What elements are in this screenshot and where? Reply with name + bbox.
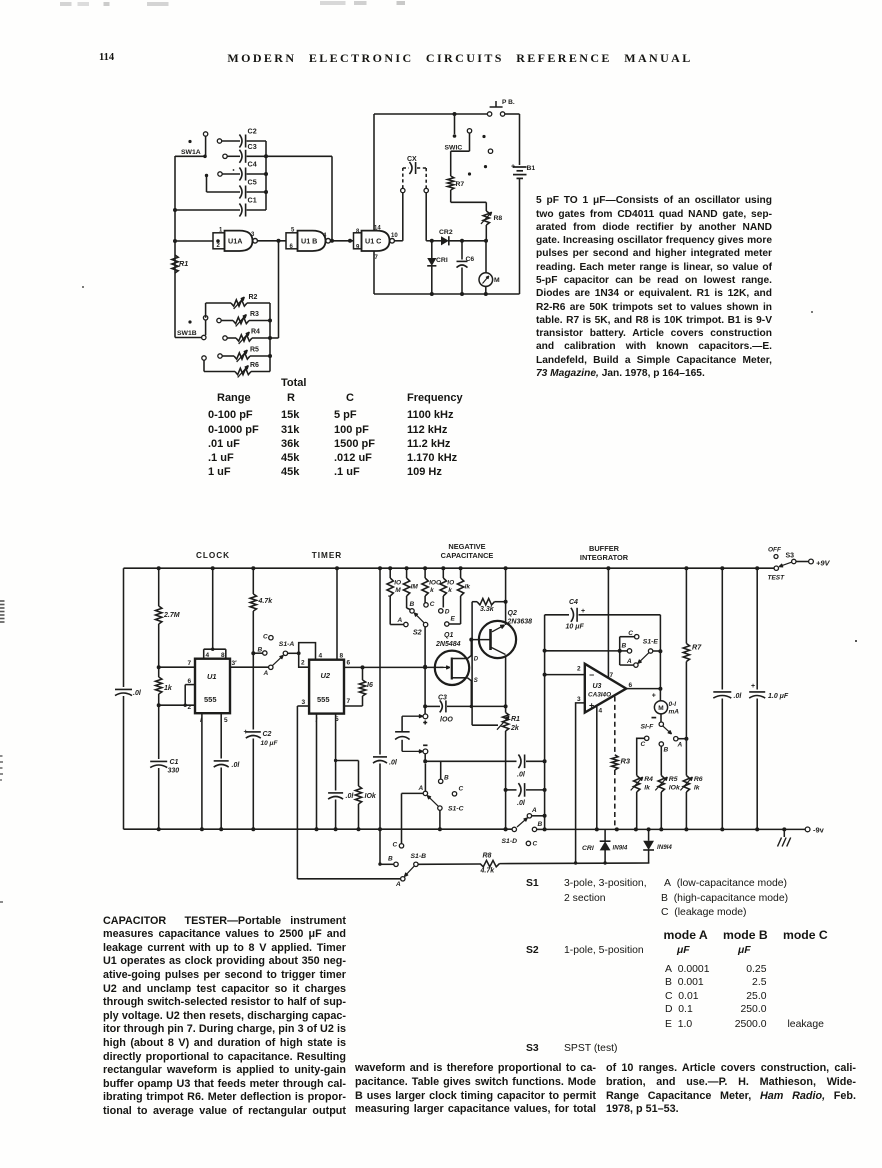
svg-text:2: 2 bbox=[577, 666, 581, 673]
svg-text:2: 2 bbox=[188, 704, 192, 711]
svg-text:555: 555 bbox=[204, 695, 217, 704]
svg-text:C: C bbox=[628, 630, 633, 637]
svg-text:INTEGRATOR: INTEGRATOR bbox=[580, 553, 629, 562]
svg-text:4: 4 bbox=[323, 233, 327, 239]
svg-text:lN9l4: lN9l4 bbox=[613, 845, 628, 852]
svg-text:CR2: CR2 bbox=[439, 229, 453, 236]
svg-text:555: 555 bbox=[317, 695, 330, 704]
svg-text:7: 7 bbox=[188, 660, 192, 667]
svg-text:CX: CX bbox=[407, 156, 417, 163]
svg-text:S1-A: S1-A bbox=[279, 641, 295, 648]
svg-text:R4: R4 bbox=[644, 776, 653, 783]
svg-text:4: 4 bbox=[319, 653, 323, 660]
svg-text:M: M bbox=[658, 705, 663, 712]
svg-text:B: B bbox=[538, 821, 543, 828]
svg-text:C: C bbox=[533, 841, 538, 848]
svg-text:TEST: TEST bbox=[768, 575, 786, 582]
svg-text:S1-D: S1-D bbox=[502, 838, 518, 845]
svg-text:2N3638: 2N3638 bbox=[507, 619, 533, 626]
svg-text:k: k bbox=[448, 587, 452, 594]
svg-text:D: D bbox=[474, 657, 479, 663]
svg-text:CRl: CRl bbox=[582, 845, 594, 852]
svg-text:3.3k: 3.3k bbox=[480, 606, 495, 613]
svg-text:M: M bbox=[494, 277, 500, 284]
svg-text:.0l: .0l bbox=[517, 800, 526, 807]
svg-text:A: A bbox=[677, 742, 683, 749]
svg-text:7: 7 bbox=[375, 255, 379, 261]
svg-text:+: + bbox=[581, 608, 585, 615]
svg-text:R2: R2 bbox=[249, 294, 258, 301]
svg-text:U1 C: U1 C bbox=[365, 236, 381, 245]
svg-text:2N5484: 2N5484 bbox=[435, 641, 461, 648]
svg-text:R8: R8 bbox=[494, 215, 503, 222]
svg-text:R4: R4 bbox=[251, 329, 260, 336]
svg-text:lk: lk bbox=[694, 785, 701, 792]
svg-text:R5: R5 bbox=[669, 776, 678, 783]
svg-text:lOO: lOO bbox=[440, 717, 453, 724]
svg-text:k: k bbox=[430, 587, 434, 594]
svg-text:.0l: .0l bbox=[232, 762, 241, 769]
svg-text:S2: S2 bbox=[413, 628, 422, 637]
svg-text:SW1B: SW1B bbox=[177, 330, 197, 337]
svg-text:B1: B1 bbox=[527, 165, 536, 172]
svg-text:8: 8 bbox=[221, 652, 225, 659]
svg-text:B: B bbox=[388, 856, 393, 863]
svg-text:A: A bbox=[418, 785, 424, 792]
svg-text:8: 8 bbox=[340, 653, 344, 660]
svg-text:lM: lM bbox=[411, 584, 419, 591]
svg-text:D: D bbox=[445, 609, 450, 616]
svg-text:S1-E: S1-E bbox=[643, 638, 659, 645]
svg-text:A: A bbox=[531, 807, 537, 814]
svg-text:S3: S3 bbox=[786, 553, 795, 560]
svg-text:IOk: IOk bbox=[365, 793, 377, 800]
svg-text:.0l: .0l bbox=[133, 690, 142, 697]
svg-text:R8: R8 bbox=[483, 853, 492, 860]
svg-text:C5: C5 bbox=[248, 178, 257, 187]
svg-text:10 μF: 10 μF bbox=[261, 740, 279, 747]
svg-text:BUFFER: BUFFER bbox=[589, 544, 620, 553]
svg-text:330: 330 bbox=[168, 768, 180, 775]
svg-text:S1-C: S1-C bbox=[448, 806, 464, 813]
svg-text:.0l: .0l bbox=[346, 793, 355, 800]
svg-text:B: B bbox=[622, 643, 627, 650]
svg-text:+: + bbox=[652, 692, 656, 699]
svg-text:lO: lO bbox=[394, 580, 401, 587]
svg-text:4: 4 bbox=[599, 708, 603, 715]
svg-text:R1: R1 bbox=[511, 716, 520, 723]
svg-text:lk: lk bbox=[465, 584, 471, 591]
svg-text:CRI: CRI bbox=[436, 257, 448, 264]
svg-text:P B.: P B. bbox=[502, 99, 515, 106]
svg-text:C: C bbox=[459, 786, 464, 793]
svg-text:0-l: 0-l bbox=[669, 701, 677, 708]
svg-text:C: C bbox=[641, 741, 646, 748]
svg-text:10 μF: 10 μF bbox=[566, 624, 585, 631]
svg-text:I6: I6 bbox=[367, 682, 373, 689]
svg-text:R5: R5 bbox=[250, 347, 259, 354]
svg-text:C3: C3 bbox=[248, 142, 257, 151]
svg-text:lk: lk bbox=[644, 785, 651, 792]
svg-text:lOO: lOO bbox=[429, 580, 441, 587]
svg-text:A: A bbox=[397, 617, 403, 624]
svg-text:B: B bbox=[664, 747, 669, 754]
svg-text:R6: R6 bbox=[694, 776, 703, 783]
svg-text:A: A bbox=[626, 658, 632, 665]
svg-text:E: E bbox=[451, 616, 456, 623]
svg-text:4.7k: 4.7k bbox=[258, 598, 274, 605]
svg-text:C1: C1 bbox=[248, 196, 257, 205]
svg-text:l: l bbox=[200, 717, 202, 724]
svg-text:5: 5 bbox=[224, 717, 228, 724]
svg-text:.0l: .0l bbox=[734, 693, 743, 700]
svg-text:TIMER: TIMER bbox=[312, 551, 342, 560]
svg-text:Q1: Q1 bbox=[444, 632, 453, 639]
svg-text:14: 14 bbox=[374, 226, 381, 232]
svg-text:A: A bbox=[263, 670, 269, 677]
svg-text:lO: lO bbox=[447, 580, 454, 587]
svg-text:7: 7 bbox=[610, 672, 614, 679]
svg-text:U1: U1 bbox=[207, 672, 217, 681]
svg-text:-9v: -9v bbox=[813, 826, 825, 835]
svg-text:7: 7 bbox=[347, 698, 351, 705]
svg-text:3′: 3′ bbox=[232, 660, 238, 667]
svg-text:SW1A: SW1A bbox=[181, 149, 201, 156]
svg-text:1.0 μF: 1.0 μF bbox=[768, 693, 789, 700]
svg-text:B: B bbox=[410, 601, 415, 608]
svg-text:NEGATIVE: NEGATIVE bbox=[448, 542, 485, 551]
svg-text:+9V: +9V bbox=[816, 559, 831, 568]
svg-text:C4: C4 bbox=[569, 599, 578, 606]
svg-text:S1-B: S1-B bbox=[411, 853, 427, 860]
svg-text:U3: U3 bbox=[593, 683, 602, 690]
svg-text:6: 6 bbox=[347, 660, 351, 667]
svg-text:U1A: U1A bbox=[228, 236, 242, 245]
svg-text:2.7M: 2.7M bbox=[163, 612, 180, 619]
svg-text:CLOCK: CLOCK bbox=[196, 551, 230, 560]
svg-text:C6: C6 bbox=[466, 256, 475, 263]
svg-text:4: 4 bbox=[206, 652, 210, 659]
svg-text:OFF: OFF bbox=[768, 547, 782, 554]
svg-text:+: + bbox=[589, 701, 594, 711]
svg-text:.0l: .0l bbox=[389, 760, 398, 767]
svg-text:C2: C2 bbox=[263, 731, 272, 738]
svg-text:S: S bbox=[474, 678, 478, 684]
svg-text:R3: R3 bbox=[621, 757, 631, 766]
svg-text:3: 3 bbox=[302, 699, 306, 706]
svg-text:U1 B: U1 B bbox=[301, 236, 317, 245]
svg-text:CA3l4O: CA3l4O bbox=[588, 692, 611, 699]
svg-text:C1: C1 bbox=[170, 759, 179, 766]
svg-text:9: 9 bbox=[356, 245, 360, 251]
svg-text:4.7k: 4.7k bbox=[480, 868, 496, 875]
svg-text:R7: R7 bbox=[456, 181, 465, 188]
svg-text:M: M bbox=[395, 587, 401, 594]
svg-text:C2: C2 bbox=[248, 127, 257, 136]
svg-text:lOk: lOk bbox=[669, 785, 681, 792]
svg-text:R7: R7 bbox=[692, 643, 702, 652]
svg-text:C: C bbox=[393, 842, 398, 849]
svg-text:6: 6 bbox=[188, 678, 192, 685]
svg-text:B: B bbox=[444, 775, 449, 782]
svg-text:Q2: Q2 bbox=[508, 610, 517, 617]
svg-text:10: 10 bbox=[391, 233, 398, 239]
svg-text:C3: C3 bbox=[438, 695, 447, 702]
svg-text:+: + bbox=[751, 683, 755, 690]
svg-text:CAPACITANCE: CAPACITANCE bbox=[441, 551, 494, 560]
svg-text:lN9l4: lN9l4 bbox=[657, 844, 672, 851]
svg-text:R1: R1 bbox=[179, 259, 188, 268]
svg-text:2k: 2k bbox=[510, 725, 520, 732]
svg-text:C: C bbox=[430, 601, 435, 608]
svg-text:.0l: .0l bbox=[517, 772, 526, 779]
svg-text:C: C bbox=[263, 634, 268, 641]
svg-text:3: 3 bbox=[577, 696, 581, 703]
svg-text:8: 8 bbox=[356, 229, 360, 235]
svg-text:2: 2 bbox=[301, 660, 305, 667]
svg-text:1k: 1k bbox=[164, 685, 173, 692]
svg-text:R6: R6 bbox=[250, 362, 259, 369]
svg-text:3: 3 bbox=[251, 232, 255, 238]
svg-text:Sl-F: Sl-F bbox=[641, 723, 655, 730]
svg-text:A: A bbox=[395, 881, 401, 888]
svg-text:−: − bbox=[589, 670, 594, 680]
svg-text:R3: R3 bbox=[250, 311, 259, 318]
svg-text:C4: C4 bbox=[248, 160, 257, 169]
svg-text:U2: U2 bbox=[321, 671, 331, 680]
svg-text:mA: mA bbox=[669, 709, 680, 716]
